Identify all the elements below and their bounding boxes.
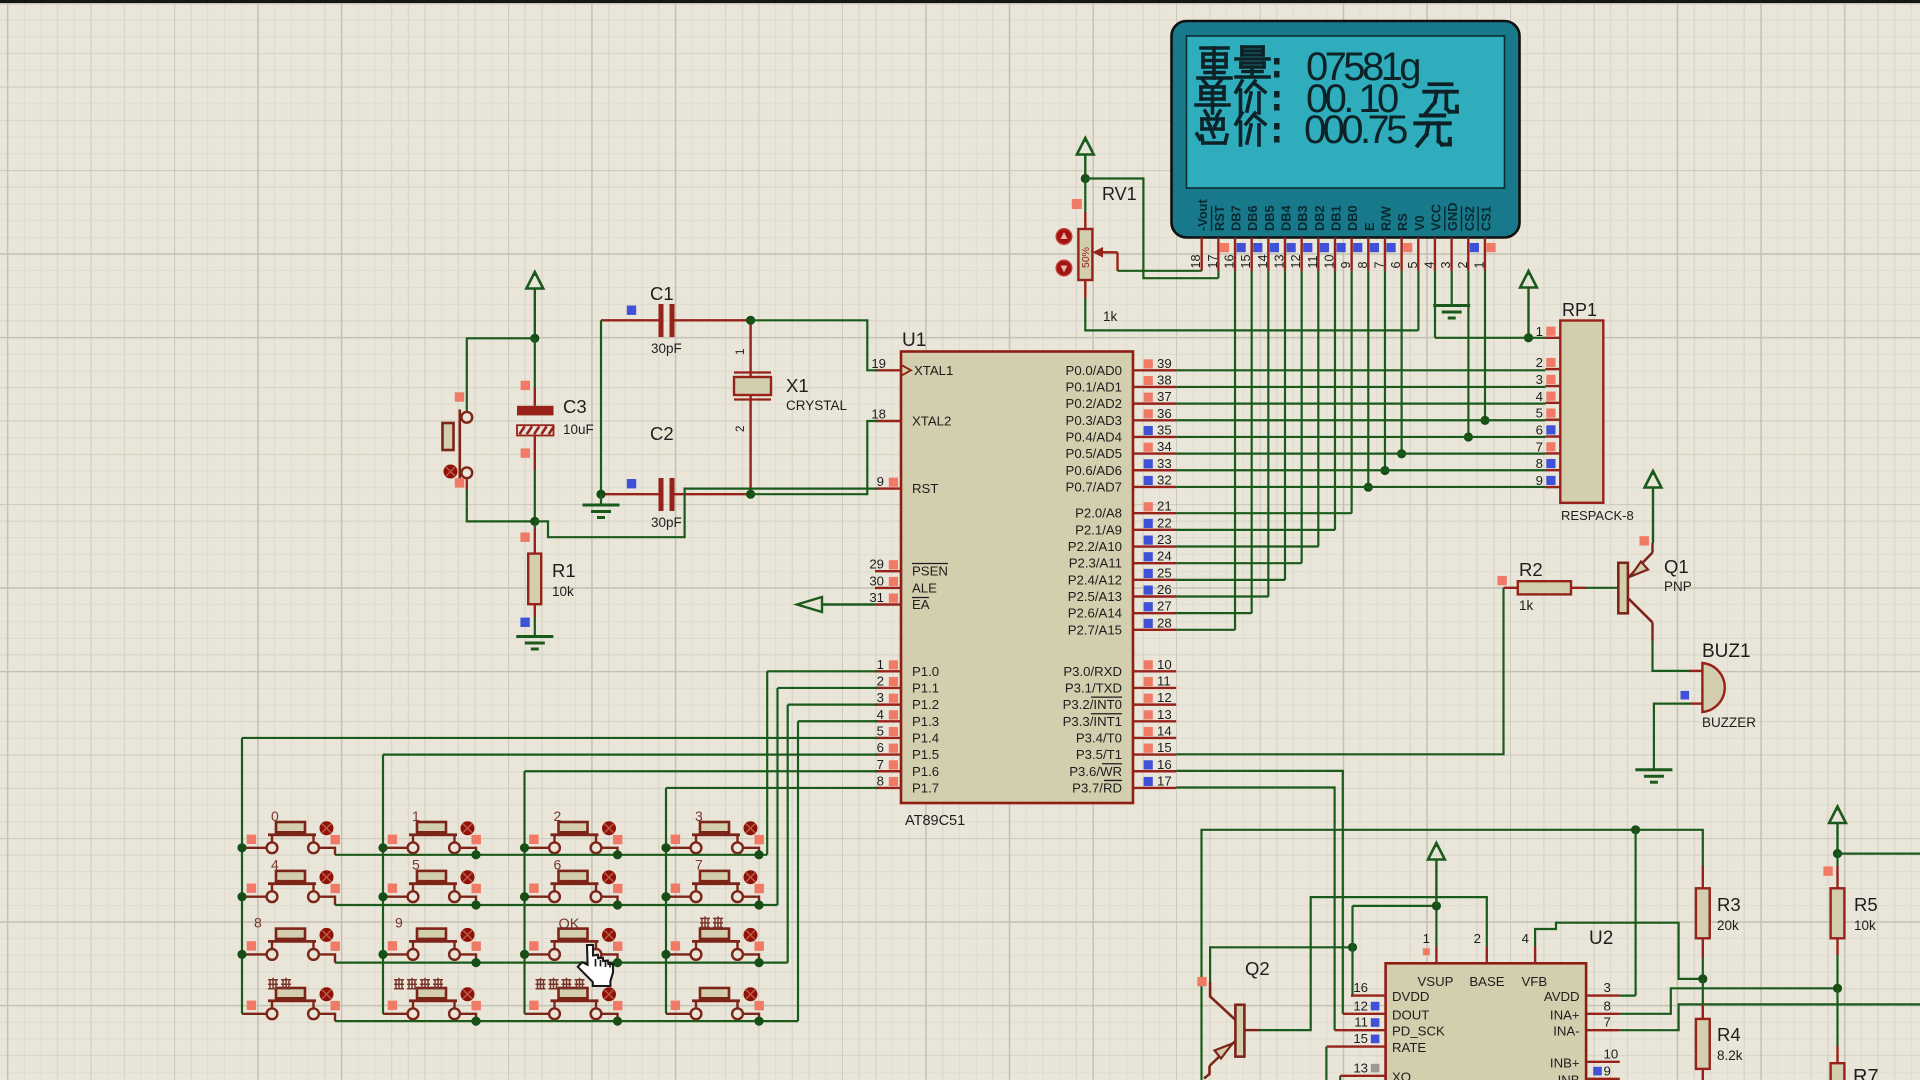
label RESPACK-8: [1561, 508, 1634, 523]
svg-text:10k: 10k: [1854, 918, 1876, 933]
pin 15 P3.5/T1 of U1: [1076, 740, 1176, 762]
svg-text:12: 12: [1157, 690, 1172, 705]
svg-text:14: 14: [1256, 254, 1270, 268]
svg-text:1k: 1k: [1519, 598, 1534, 613]
svg-text:22: 22: [1157, 515, 1172, 530]
label 8: [254, 914, 262, 930]
svg-text:OK: OK: [559, 916, 580, 932]
svg-text:DB4: DB4: [1279, 205, 1294, 231]
node keypad col1 row3 junction: [237, 950, 246, 959]
node keypad row1 col4 junction: [754, 850, 763, 859]
svg-text:RV1: RV1: [1102, 184, 1137, 204]
pin 9 INB of U2: [1558, 1063, 1620, 1080]
power symbol VCC above C3: [526, 272, 543, 338]
svg-text:2: 2: [1474, 931, 1481, 946]
svg-text:P0.1/AD1: P0.1/AD1: [1066, 379, 1122, 394]
svg-text:INB: INB: [1558, 1072, 1580, 1080]
svg-text:DB0: DB0: [1345, 205, 1360, 231]
svg-text:XTAL1: XTAL1: [914, 363, 953, 378]
svg-text:30pF: 30pF: [651, 515, 682, 530]
pin 11 P3.1/TXD of U1: [1065, 673, 1176, 695]
power arrow at EA pin: [797, 597, 875, 612]
label R3 value 20k: [1717, 918, 1739, 933]
pin 37 P0.2/AD2 of U1: [1066, 389, 1177, 411]
label R1: [552, 560, 576, 581]
svg-text:GND: GND: [1445, 203, 1460, 231]
svg-text:CRYSTAL: CRYSTAL: [786, 398, 848, 413]
wire C1 right to XTAL1: [751, 320, 878, 370]
label 0: [271, 808, 279, 824]
svg-text:9: 9: [877, 474, 884, 489]
resistor R7: [1831, 988, 1845, 1080]
node keypad col4 row1 junction: [661, 843, 670, 852]
svg-text:P3.3/INT1: P3.3/INT1: [1063, 714, 1122, 729]
svg-text:8.2k: 8.2k: [1717, 1048, 1743, 1063]
wire LCD CS2 pin2 to P0.4 net: [1467, 271, 1469, 437]
resistor R1: [520, 521, 541, 627]
pin 24 P2.3/A11 of U1: [1069, 549, 1176, 571]
LCD screen text line1: 重量: 07581g: [1198, 45, 1419, 89]
pin 14 P3.4/T0 of U1: [1076, 723, 1176, 745]
pin 7 P1.6 of U1: [875, 757, 939, 779]
svg-text:RST: RST: [1212, 205, 1227, 231]
push button keypad 5: [383, 870, 481, 905]
wire P2.6 from U1 to LCD DB6: [1176, 612, 1252, 614]
push button keypad 去皮: [666, 928, 764, 963]
svg-text:ALE: ALE: [912, 580, 937, 595]
svg-text:P0.0/AD0: P0.0/AD0: [1066, 363, 1122, 378]
svg-text:8: 8: [1604, 998, 1611, 1013]
svg-text:P1.7: P1.7: [912, 780, 939, 795]
label R2: [1519, 559, 1543, 580]
svg-text:15: 15: [1157, 740, 1172, 755]
node keypad row4 col4 junction: [754, 1017, 763, 1026]
node keypad col4 row3 junction: [661, 950, 670, 959]
label CRYSTAL: [786, 398, 848, 413]
svg-text:5: 5: [412, 857, 420, 873]
capacitor C3: [517, 338, 554, 521]
node RS-P0.5 junction: [1397, 449, 1406, 458]
node CS2-P0.4 junction: [1464, 432, 1473, 441]
svg-text:P1.4: P1.4: [912, 730, 939, 745]
svg-text:R4: R4: [1717, 1024, 1741, 1045]
node X1 pin1 junction: [746, 316, 755, 325]
node keypad col2 row1 junction: [378, 843, 387, 852]
wire LCD CS1 pin1 to P0.3 net: [1484, 271, 1486, 421]
svg-text:XTAL2: XTAL2: [912, 414, 951, 429]
svg-text:27: 27: [1157, 599, 1172, 614]
svg-text:39: 39: [1157, 356, 1172, 371]
resistor R5: [1823, 854, 1844, 955]
svg-text:R3: R3: [1717, 894, 1741, 915]
svg-text:EA: EA: [912, 597, 930, 612]
svg-text:17: 17: [1206, 254, 1220, 268]
node R5-R7 junction: [1833, 955, 1842, 993]
wire P1.4 from U1 to keypad: [242, 737, 878, 739]
label PNP: [1664, 579, 1692, 594]
svg-text:3: 3: [1439, 261, 1453, 268]
svg-text:17: 17: [1157, 773, 1172, 788]
svg-text:1: 1: [412, 808, 420, 824]
wire AVDD riser: [1620, 830, 1636, 996]
label 总价清零: [536, 978, 585, 989]
node keypad row2 col4 junction: [754, 900, 763, 909]
svg-text:32: 32: [1157, 472, 1172, 487]
svg-text:29: 29: [869, 557, 884, 572]
svg-text:4: 4: [271, 857, 279, 873]
label 单价清零: [394, 978, 443, 989]
svg-text:11: 11: [1354, 1015, 1368, 1030]
svg-text:7: 7: [1536, 439, 1543, 454]
label 6: [554, 857, 562, 873]
label R5: [1854, 894, 1878, 915]
svg-text:P1.3: P1.3: [912, 714, 939, 729]
svg-text:4: 4: [1522, 931, 1529, 946]
pin 34 P0.5/AD5 of U1: [1066, 439, 1177, 461]
svg-text:0: 0: [271, 808, 279, 824]
wire P0.2 from U1 to RP1 pin 4: [1176, 403, 1545, 405]
wire P0.1 from U1 to RP1 pin 3: [1176, 386, 1545, 388]
transistor Q2 PNP: [1197, 977, 1259, 1079]
label C2: [650, 423, 674, 444]
node VCC-RP1 junction: [1524, 333, 1533, 342]
pin 27 P2.6/A14 of U1: [1068, 599, 1176, 621]
pin 13 XO of U2: [1340, 1060, 1411, 1080]
wire keypad column 4 to P1.7: [665, 788, 667, 1014]
svg-text:16: 16: [1223, 254, 1237, 268]
svg-text:X1: X1: [786, 375, 809, 396]
pin 12 P3.2/INT0 of U1: [1063, 690, 1177, 712]
node VCC-C3 junction: [530, 334, 539, 343]
node keypad col2 row2 junction: [378, 892, 387, 901]
node keypad col2 row3 junction: [378, 950, 387, 959]
svg-text:35: 35: [1157, 422, 1172, 437]
svg-text:DB6: DB6: [1245, 205, 1260, 231]
LCD pin stubs and numbers 18..1: [1189, 238, 1495, 271]
pin 26 P2.5/A13 of U1: [1068, 582, 1176, 604]
node R5 top junction: [1833, 849, 1842, 858]
svg-text:18: 18: [1189, 254, 1203, 268]
svg-text:P0.2/AD2: P0.2/AD2: [1066, 396, 1122, 411]
transistor Q1 PNP: [1618, 543, 1652, 641]
LCD module LCD1 AMPIRE128X64 body: [1172, 21, 1520, 238]
svg-text:C3: C3: [563, 396, 587, 417]
wire P1.0 from U1 to keypad: [767, 670, 878, 672]
svg-text:P2.5/A13: P2.5/A13: [1068, 589, 1122, 604]
svg-text:19: 19: [871, 356, 886, 371]
wire LCD DB0 to P2.0 net: [1351, 271, 1353, 513]
svg-text:P0.5/AD5: P0.5/AD5: [1066, 446, 1122, 461]
node keypad row4 col3 junction: [613, 1017, 622, 1026]
svg-text:34: 34: [1157, 439, 1172, 454]
wire P2.3 from U1 to LCD DB3: [1176, 562, 1302, 564]
svg-text:4: 4: [877, 707, 884, 722]
svg-text:P0.6/AD6: P0.6/AD6: [1066, 463, 1122, 478]
svg-text:5: 5: [1406, 261, 1420, 268]
svg-text:16: 16: [1157, 757, 1172, 772]
svg-text:12: 12: [1353, 998, 1368, 1013]
label C1: [650, 283, 674, 304]
svg-text:DB5: DB5: [1262, 205, 1277, 231]
pin 10 INB+ of U2: [1550, 1046, 1620, 1070]
svg-text:3: 3: [877, 690, 884, 705]
wire keypad column 2 to P1.5: [382, 755, 384, 1014]
power symbol VCC above Q1: [1640, 471, 1662, 546]
pin 12 DOUT of U2: [1343, 998, 1430, 1022]
svg-text:C2: C2: [650, 423, 674, 444]
wire keypad row 2 to P1.1: [335, 688, 778, 905]
svg-text:1: 1: [735, 349, 747, 355]
node keypad row3 col4 junction: [754, 958, 763, 967]
svg-text:3: 3: [695, 808, 703, 824]
svg-text:38: 38: [1157, 372, 1172, 387]
wire LCD DB7 to P2.7 net: [1234, 271, 1236, 630]
svg-text:DOUT: DOUT: [1392, 1007, 1429, 1022]
svg-text:P0.3/AD3: P0.3/AD3: [1066, 413, 1122, 428]
wire DVDD vertical: [1351, 906, 1353, 996]
wire P1.6 from U1 to keypad: [525, 770, 879, 772]
ground symbol below BUZ1: [1635, 770, 1672, 783]
svg-text:RS: RS: [1395, 213, 1410, 231]
svg-text:INA-: INA-: [1553, 1024, 1579, 1039]
wire INA- to right edge: [1620, 1004, 1920, 1030]
power symbol VCC above R5: [1829, 807, 1846, 854]
svg-text:Q1: Q1: [1664, 556, 1689, 577]
pin 36 P0.3/AD3 of U1: [1066, 406, 1177, 428]
wire P2.0 from U1 to LCD DB0: [1176, 512, 1352, 514]
node R3-R4 junction: [1698, 958, 1707, 984]
wire LCD DB6 to P2.6 net: [1251, 271, 1253, 614]
svg-text:P2.6/A14: P2.6/A14: [1068, 606, 1122, 621]
svg-text:P2.7/A15: P2.7/A15: [1068, 622, 1122, 637]
resistor R3: [1696, 866, 1710, 958]
pin 7 INA- of U2: [1553, 1015, 1620, 1039]
push button keypad OK: [525, 928, 623, 963]
node C2 left junction: [596, 490, 605, 499]
pin 16 P3.6/WR of U1: [1069, 757, 1176, 779]
svg-text:P1.1: P1.1: [912, 680, 939, 695]
svg-text:33: 33: [1157, 456, 1172, 471]
label 7: [695, 857, 703, 873]
svg-text:1: 1: [1423, 931, 1430, 946]
ground symbol at LCD GND pin3: [1433, 271, 1470, 318]
svg-text:5: 5: [877, 723, 884, 738]
wire P1.5 from U1 to keypad: [383, 753, 878, 755]
svg-text:DB7: DB7: [1229, 205, 1244, 231]
wire P0.6 from U1 to RP1 pin 8: [1176, 469, 1545, 471]
svg-text:P2.3/A11: P2.3/A11: [1069, 556, 1122, 571]
svg-text:R5: R5: [1854, 894, 1878, 915]
pin 35 P0.4/AD4 of U1: [1066, 422, 1177, 444]
svg-text:31: 31: [869, 590, 884, 605]
svg-text:28: 28: [1157, 615, 1172, 630]
svg-text:3: 3: [1536, 372, 1543, 387]
wire Q1 collector to BUZ1: [1653, 641, 1690, 671]
push button reset: [443, 392, 473, 487]
op-chip U1 AT89C51 body: [901, 352, 1133, 804]
label 1: [412, 808, 420, 824]
push button keypad 单价清零: [383, 987, 481, 1021]
pin 5 P1.4 of U1: [875, 723, 939, 745]
svg-text:R2: R2: [1519, 559, 1543, 580]
label BUZ1: [1702, 641, 1751, 662]
push button keypad 2: [525, 821, 623, 855]
wire P3.6 to U2 DOUT: [1176, 771, 1343, 1014]
svg-text:8: 8: [1536, 456, 1543, 471]
svg-text:1: 1: [877, 657, 884, 672]
power symbol VCC at RP1: [1520, 271, 1537, 338]
svg-text:2: 2: [554, 808, 562, 824]
wire P3.5 to R2: [1176, 588, 1503, 755]
pin 3 AVDD of U2: [1544, 980, 1620, 1004]
label 3: [695, 808, 703, 824]
svg-text:24: 24: [1157, 549, 1172, 564]
svg-text:R/W: R/W: [1378, 205, 1393, 231]
svg-text:BUZ1: BUZ1: [1702, 641, 1751, 662]
svg-text:10: 10: [1322, 254, 1336, 268]
svg-text:VSUP: VSUP: [1418, 974, 1454, 989]
resistor R2: [1497, 576, 1586, 595]
push button keypad 校准: [242, 987, 340, 1021]
node RST junction at R1 top: [530, 517, 539, 526]
node CS1-P0.3 junction: [1480, 416, 1489, 425]
push button keypad 3: [666, 821, 764, 855]
ground symbol below R1: [516, 617, 553, 649]
wire keypad row 4 to P1.3: [335, 721, 798, 1021]
svg-text:4: 4: [1422, 261, 1436, 268]
svg-text:50%: 50%: [1080, 247, 1092, 268]
label R5 value 10k: [1854, 918, 1876, 933]
svg-text:P2.4/A12: P2.4/A12: [1068, 572, 1122, 587]
pin 23 P2.2/A10 of U1: [1068, 532, 1176, 554]
pin 4 VFB of U2: [1522, 931, 1548, 989]
label Q1: [1664, 556, 1689, 577]
svg-text:13: 13: [1157, 707, 1172, 722]
label 校准: [268, 978, 291, 989]
node keypad row4 col2 junction: [471, 1017, 480, 1026]
svg-text:U1: U1: [902, 330, 926, 351]
node keypad row2 col3 junction: [613, 900, 622, 909]
svg-text:P1.2: P1.2: [912, 697, 939, 712]
svg-text:P0.7/AD7: P0.7/AD7: [1066, 479, 1122, 494]
svg-text:6: 6: [554, 857, 562, 873]
wire VSUP to power: [1353, 906, 1437, 947]
svg-text:XO: XO: [1392, 1069, 1411, 1080]
label 9: [395, 914, 403, 930]
svg-text:CS1: CS1: [1478, 206, 1493, 231]
svg-text:9: 9: [1339, 261, 1353, 268]
svg-text:7: 7: [1372, 261, 1386, 268]
wire P0.4 from U1 to RP1 pin 6: [1176, 436, 1545, 438]
svg-text:P2.2/A10: P2.2/A10: [1068, 539, 1122, 554]
wire LCD DB4 to P2.4 net: [1284, 271, 1286, 580]
pin 39 P0.0/AD0 of U1: [1066, 356, 1177, 378]
svg-text:8: 8: [877, 773, 884, 788]
svg-text:DB3: DB3: [1295, 205, 1310, 231]
svg-text:RP1: RP1: [1562, 300, 1597, 320]
svg-text:26: 26: [1157, 582, 1172, 597]
label R4: [1717, 1024, 1741, 1045]
capacitor C2: [601, 478, 751, 511]
wire P0.7 from U1 to RP1 pin 9: [1176, 486, 1545, 488]
svg-text:E: E: [1362, 222, 1377, 231]
svg-text:P3.1/TXD: P3.1/TXD: [1065, 680, 1122, 695]
svg-text:R7: R7: [1853, 1066, 1879, 1080]
label C2 value 30pF: [651, 515, 682, 530]
node DVDD junction: [1348, 943, 1357, 952]
svg-text:6: 6: [1389, 261, 1403, 268]
label 4: [271, 857, 279, 873]
svg-text:6: 6: [877, 740, 884, 755]
svg-text:23: 23: [1157, 532, 1172, 547]
svg-text:16: 16: [1353, 980, 1368, 995]
svg-text:30: 30: [869, 573, 884, 588]
label OK: [559, 916, 580, 932]
push button keypad 4: [242, 870, 340, 905]
label BUZZER: [1702, 715, 1756, 730]
label R1 value 10k: [552, 584, 574, 599]
svg-text:15: 15: [1353, 1031, 1368, 1046]
svg-text:P3.4/T0: P3.4/T0: [1076, 730, 1122, 745]
pin 10 P3.0/RXD of U1: [1063, 657, 1176, 679]
pin 8 INA+ of U2: [1550, 998, 1620, 1022]
svg-text:2: 2: [877, 673, 884, 688]
wire RV1 bottom to LCD V0 pin5: [1085, 271, 1418, 331]
svg-text:P1.5: P1.5: [912, 747, 939, 762]
svg-text:12: 12: [1289, 254, 1303, 268]
wire LCD VCC pin4 to RP1 pin1: [1435, 271, 1545, 338]
wire P1.1 from U1 to keypad: [778, 687, 879, 689]
label R3: [1717, 894, 1741, 915]
svg-text:6: 6: [1536, 423, 1543, 438]
label U1: [902, 330, 926, 351]
svg-text:13: 13: [1273, 254, 1287, 268]
svg-text:5: 5: [1536, 406, 1543, 421]
wire LCD E pin8 to P0.7 net: [1367, 271, 1369, 487]
svg-text:P3.2/INT0: P3.2/INT0: [1063, 697, 1122, 712]
push button keypad 6: [525, 870, 623, 905]
pin 18 XTAL2 of U1: [871, 407, 951, 429]
wire P2.7 from U1 to LCD DB7: [1176, 629, 1235, 631]
pin 8 P1.7 of U1: [875, 773, 939, 795]
op-chip U2 body: [1386, 963, 1587, 1080]
node keypad col1 row2 junction: [237, 892, 246, 901]
svg-text:9: 9: [1604, 1063, 1611, 1078]
svg-text:7: 7: [1604, 1015, 1611, 1030]
svg-text:3: 3: [1604, 980, 1611, 995]
label R2 value 1k: [1519, 598, 1534, 613]
wire LCD DB2 to P2.2 net: [1317, 271, 1319, 547]
svg-text:14: 14: [1157, 723, 1172, 738]
node keypad col3 row2 junction: [520, 892, 529, 901]
svg-text:C1: C1: [650, 283, 674, 304]
svg-text:RATE: RATE: [1392, 1040, 1426, 1055]
potentiometer RV1: [1056, 179, 1117, 299]
wire BUZ1 bottom to ground: [1654, 704, 1691, 769]
node RV1 top junction: [1081, 174, 1090, 183]
label R4 value 8.2k: [1717, 1048, 1743, 1063]
wire LCD DB3 to P2.3 net: [1301, 271, 1303, 564]
LCD screen text line3: 总价: 000.75元: [1197, 108, 1450, 152]
wire INA+ to R5-R7 node: [1620, 988, 1838, 1014]
wire P0.5 from U1 to RP1 pin 7: [1176, 453, 1545, 455]
svg-text:P3.5/T1: P3.5/T1: [1076, 747, 1122, 762]
node keypad row1 col3 junction: [613, 850, 622, 859]
svg-text:DB1: DB1: [1328, 205, 1343, 231]
node VSUP junction: [1432, 901, 1441, 910]
wire R5 top to right edge: [1838, 852, 1920, 854]
pin 16 DVDD of U2: [1351, 980, 1429, 1004]
